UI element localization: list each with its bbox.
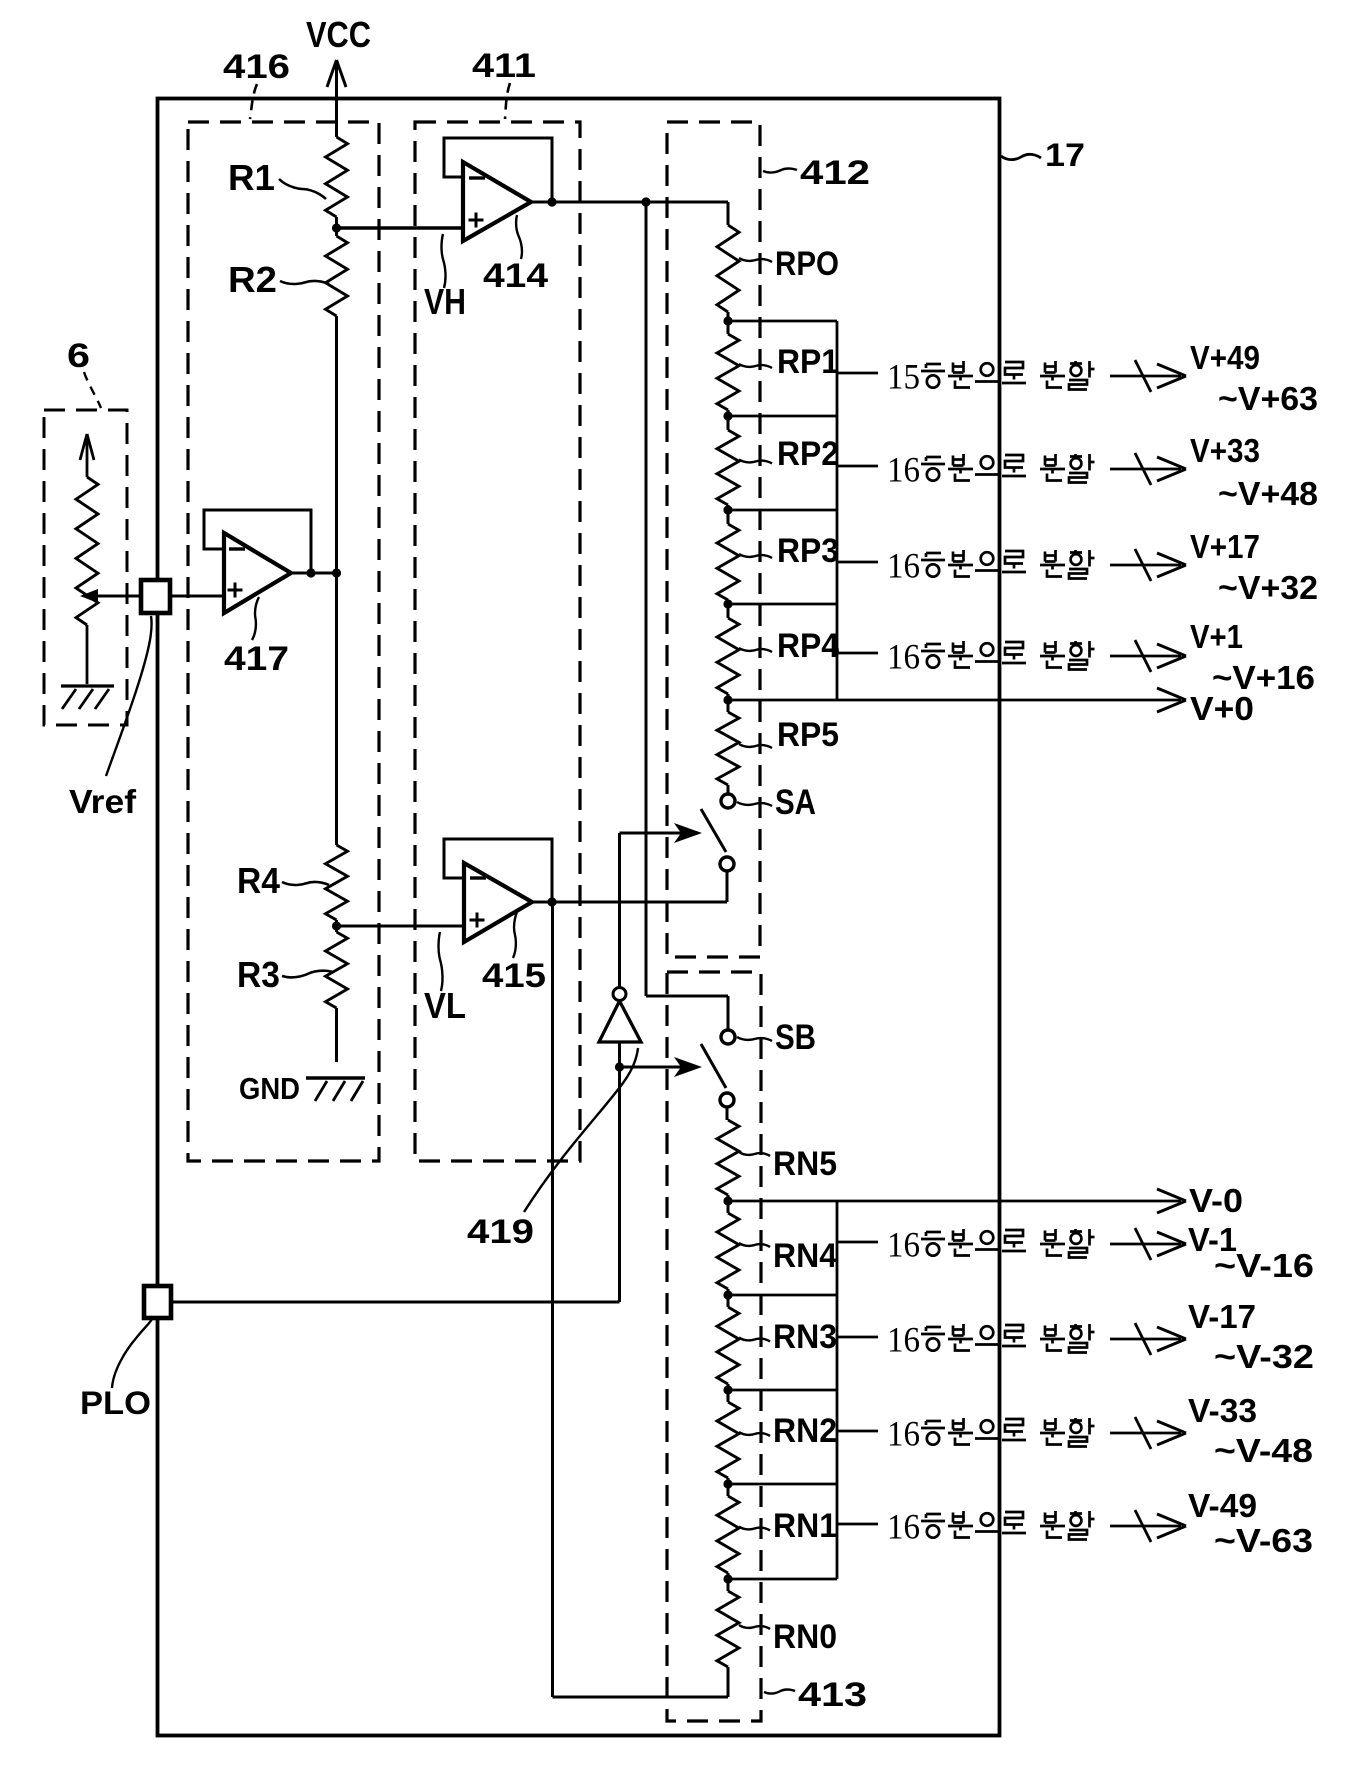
node ladder 1295 — [723, 1290, 732, 1299]
bus arrow V+49 — [1110, 360, 1186, 392]
label 6 with leader — [67, 337, 101, 408]
annotation 16deungbun division row V-17 — [887, 1320, 1095, 1360]
label RN3 with leader — [739, 1318, 837, 1356]
switch SB — [701, 1030, 735, 1107]
lower bracket bus collector — [728, 1201, 837, 1579]
svg-text:16: 16 — [887, 1414, 920, 1454]
svg-text:RP3: RP3 — [777, 532, 839, 570]
resistor RP3 — [717, 510, 739, 604]
label 419 with leader — [467, 1048, 638, 1251]
label GND — [239, 1071, 300, 1106]
resistor RN3 — [717, 1295, 739, 1390]
dashed block 411 — [415, 122, 580, 1161]
svg-text:PLO: PLO — [80, 1385, 151, 1421]
potentiometer 6 resistor — [76, 477, 98, 684]
op-amp 415 — [464, 863, 532, 942]
switch SA control arrow — [620, 823, 703, 843]
op-amp 417 — [224, 533, 291, 613]
dashed block 413 — [667, 972, 761, 1721]
label SA with leader — [737, 783, 816, 822]
svg-text:SA: SA — [775, 783, 816, 822]
label 417 with leader — [224, 597, 289, 678]
node ladder 604 — [723, 599, 732, 608]
svg-text:V-49: V-49 — [1188, 1487, 1257, 1524]
svg-text:~V+63: ~V+63 — [1218, 380, 1318, 417]
tap stub for V-17 bus — [837, 1336, 878, 1339]
label RP3 with leader — [739, 532, 839, 570]
svg-text:~V-48: ~V-48 — [1214, 1432, 1313, 1469]
label V+1 ~V+16 — [1190, 618, 1315, 696]
ground symbol of potentiometer — [61, 686, 114, 709]
dashed block 416 — [188, 122, 379, 1161]
label RN0 with leader — [739, 1618, 837, 1656]
switch SA — [701, 794, 735, 871]
label VL with leader — [424, 932, 466, 1026]
resistor RN0 — [717, 1579, 739, 1697]
node VL tap — [332, 921, 341, 930]
tap stub for V+49 bus — [837, 372, 878, 375]
svg-text:RP4: RP4 — [777, 627, 839, 665]
node VH tap — [332, 223, 341, 232]
svg-text:V-17: V-17 — [1188, 1298, 1256, 1335]
svg-text:~V+48: ~V+48 — [1218, 475, 1318, 512]
label V+49 ~V+63 — [1190, 339, 1318, 417]
svg-text:16: 16 — [887, 637, 920, 677]
svg-text:V+1: V+1 — [1190, 618, 1243, 655]
resistor RN4 — [717, 1201, 739, 1295]
svg-text:GND: GND — [239, 1071, 300, 1106]
label RP5 with leader — [739, 716, 839, 754]
svg-text:RP2: RP2 — [777, 435, 839, 473]
node ladder 700 (V+0 tap) — [723, 695, 732, 704]
svg-text:17: 17 — [1045, 137, 1085, 173]
wire V-0 output — [728, 1189, 1186, 1213]
svg-text:RP5: RP5 — [777, 716, 839, 754]
wire op-amp 415 output to switch SA — [532, 871, 727, 907]
resistor RP5 — [717, 700, 739, 794]
svg-text:16: 16 — [887, 1320, 920, 1360]
VCC power symbol — [306, 14, 371, 137]
node ladder 1390 — [723, 1385, 732, 1394]
svg-text:RP1: RP1 — [777, 343, 839, 381]
potentiometer wiper arrow — [80, 589, 141, 603]
label Vref with leader — [69, 616, 152, 820]
wire PLO riser to inverter input and SB control — [615, 1042, 624, 1302]
resistor RP4 — [717, 604, 739, 700]
svg-text:R4: R4 — [237, 860, 280, 901]
wire V+0 output — [728, 688, 1186, 712]
svg-text:V-0: V-0 — [1189, 1182, 1243, 1219]
node ladder 1201 — [723, 1196, 732, 1205]
resistor R2 — [326, 228, 348, 316]
terminal Vref — [141, 580, 170, 613]
resistor R1 — [326, 137, 348, 228]
bus arrow V-49 — [1110, 1510, 1186, 1542]
svg-text:15: 15 — [887, 357, 920, 397]
annotation 16deungbun division row V+1 — [887, 637, 1095, 677]
svg-text:16: 16 — [887, 450, 920, 490]
svg-text:RN0: RN0 — [773, 1618, 837, 1656]
svg-text:SB: SB — [775, 1018, 816, 1057]
tap stub for V-33 bus — [837, 1430, 878, 1433]
op-amp 415 feedback wire — [444, 839, 552, 900]
label RP2 with leader — [739, 435, 839, 473]
label 414 with leader — [483, 215, 548, 295]
bus arrow V-1 — [1110, 1228, 1186, 1260]
svg-text:V+49: V+49 — [1190, 339, 1260, 376]
label RN5 with leader — [739, 1145, 837, 1183]
svg-text:416: 416 — [223, 48, 290, 86]
node ladder 1484 — [723, 1479, 732, 1488]
svg-text:6: 6 — [67, 337, 90, 375]
wire op-amp 417 output to chain — [291, 568, 341, 577]
wire PLO to riser — [171, 1301, 620, 1304]
wire VH to switch SB — [646, 202, 728, 1030]
label RN4 with leader — [739, 1237, 837, 1275]
svg-text:R3: R3 — [237, 954, 280, 995]
svg-text:16: 16 — [887, 1225, 920, 1265]
label SB with leader — [737, 1018, 816, 1057]
label RP1 with leader — [739, 343, 839, 381]
label 413 with leader — [764, 1676, 867, 1714]
switch SB control arrow — [620, 1057, 703, 1077]
svg-text:415: 415 — [482, 957, 546, 995]
wire op-amp 414 output — [531, 197, 728, 206]
wire R2 to R4 mid chain — [335, 316, 338, 845]
wire VL tap to op-amp 415 — [337, 925, 465, 928]
svg-text:~V-32: ~V-32 — [1214, 1338, 1314, 1375]
svg-text:16: 16 — [887, 1507, 920, 1547]
svg-text:RN5: RN5 — [773, 1145, 837, 1183]
svg-text:V+33: V+33 — [1190, 432, 1260, 469]
svg-text:VCC: VCC — [306, 14, 371, 55]
svg-text:412: 412 — [800, 154, 870, 192]
node ladder 510 — [723, 505, 732, 514]
ground symbol of divider chain — [306, 1078, 365, 1101]
svg-text:~V-63: ~V-63 — [1214, 1522, 1313, 1559]
label 415 with leader — [482, 912, 546, 995]
svg-text:RN1: RN1 — [773, 1507, 837, 1545]
label R2 with leader — [228, 259, 329, 300]
tap stub for V+1 bus — [837, 652, 878, 655]
terminal PLO — [144, 1286, 171, 1318]
dashed block 412 — [667, 122, 760, 957]
label V-1 ~V-16 — [1188, 1221, 1314, 1284]
label V+17 ~V+32 — [1190, 528, 1318, 606]
annotation 16deungbun division row V+33 — [887, 450, 1095, 490]
op-amp 414 feedback wire — [444, 138, 552, 200]
resistor RN5 — [717, 1107, 739, 1201]
svg-text:419: 419 — [467, 1213, 534, 1251]
tap stub for V-49 bus — [837, 1523, 878, 1526]
wire op-amp 414 output to ladder top — [727, 202, 730, 225]
svg-text:16: 16 — [887, 546, 920, 586]
label R4 with leader — [237, 860, 329, 901]
wire VH tap to op-amp 414 — [337, 226, 464, 229]
tap stub for V+17 bus — [837, 561, 878, 564]
bus arrow V-33 — [1110, 1417, 1186, 1449]
svg-text:~V+32: ~V+32 — [1218, 569, 1318, 606]
resistor RP2 — [717, 416, 739, 510]
node ladder 1579 — [723, 1574, 732, 1583]
svg-text:V+0: V+0 — [1190, 690, 1254, 727]
label V-0 — [1189, 1182, 1243, 1219]
bus arrow V+33 — [1110, 453, 1186, 485]
label V-49 ~V-63 — [1188, 1487, 1313, 1559]
label V+33 ~V+48 — [1190, 432, 1318, 512]
label RP4 with leader — [739, 627, 839, 665]
bus arrow V+17 — [1110, 549, 1186, 581]
svg-text:413: 413 — [798, 1676, 867, 1714]
label V-17 ~V-32 — [1188, 1298, 1314, 1375]
label PLO with leader — [80, 1319, 152, 1421]
svg-text:RN2: RN2 — [773, 1412, 837, 1450]
annotation 16deungbun division row V+17 — [887, 546, 1095, 586]
label 411 with leader — [472, 47, 536, 119]
svg-text:RN4: RN4 — [773, 1237, 837, 1275]
bus arrow V-17 — [1110, 1323, 1186, 1355]
svg-text:411: 411 — [472, 47, 536, 85]
svg-text:RN3: RN3 — [773, 1318, 837, 1356]
svg-text:R2: R2 — [228, 259, 277, 300]
svg-text:RPO: RPO — [775, 245, 839, 283]
resistor RP1 — [717, 321, 739, 416]
label 412 with leader — [763, 154, 870, 192]
resistor RN2 — [717, 1390, 739, 1484]
op-amp 417 feedback wire — [204, 510, 311, 571]
label V+0 — [1190, 690, 1254, 727]
label RN1 with leader — [739, 1507, 837, 1545]
svg-text:414: 414 — [483, 257, 548, 295]
tap stub for V+33 bus — [837, 465, 878, 468]
node ladder 321 — [723, 316, 732, 325]
svg-text:417: 417 — [224, 640, 289, 678]
annotation 16deungbun division row V-49 — [887, 1507, 1095, 1547]
upper bracket bus collector — [728, 321, 837, 700]
svg-text:VL: VL — [424, 985, 466, 1026]
annotation 16deungbun division row V-33 — [887, 1414, 1095, 1454]
svg-text:Vref: Vref — [69, 783, 137, 820]
wire Vref to op-amp 417 — [170, 595, 224, 598]
potentiometer 6 arrow up — [80, 434, 94, 477]
inverter 419 — [599, 988, 641, 1043]
node ladder 416 — [723, 411, 732, 420]
resistor R3 — [326, 926, 348, 1062]
tap stub for V-1 bus — [837, 1241, 878, 1244]
svg-text:~V-16: ~V-16 — [1214, 1247, 1314, 1284]
svg-text:V+17: V+17 — [1190, 528, 1260, 565]
resistor RP0 — [717, 225, 739, 321]
bus arrow V+1 — [1110, 640, 1186, 672]
wire VL to bottom of ladder 413 — [553, 902, 729, 1697]
dashed block 6 — [44, 410, 127, 725]
annotation 15deungbun division row V+49 — [887, 357, 1095, 397]
svg-text:R1: R1 — [228, 157, 275, 198]
label RPO with leader — [739, 245, 839, 283]
label 416 with leader — [223, 48, 290, 119]
label RN2 with leader — [739, 1412, 837, 1450]
svg-text:V-33: V-33 — [1188, 1392, 1257, 1429]
label R1 with leader — [228, 157, 326, 199]
resistor RN1 — [717, 1484, 739, 1579]
label R3 with leader — [237, 954, 333, 995]
label V-33 ~V-48 — [1188, 1392, 1313, 1469]
resistor R4 — [326, 845, 348, 926]
block 17 outer boundary — [158, 99, 1000, 1736]
label VH with leader — [424, 234, 466, 322]
wire inverter output to switch SA control — [618, 833, 621, 988]
label 17 with leader — [1001, 137, 1085, 173]
annotation 16deungbun division row V-1 — [887, 1225, 1095, 1265]
op-amp 414 — [463, 162, 531, 241]
